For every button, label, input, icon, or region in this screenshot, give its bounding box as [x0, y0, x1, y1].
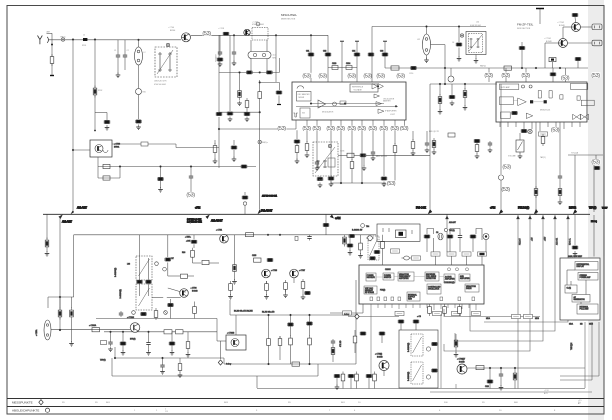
svg-text:8: 8	[554, 410, 556, 412]
svg-text:C203H: C203H	[385, 269, 391, 271]
svg-text:N/4: N/4	[302, 113, 305, 115]
svg-text:MPX2: MPX2	[569, 205, 577, 209]
svg-text:CMOS-KO 4TR: CMOS-KO 4TR	[154, 81, 167, 83]
svg-text:300: 300	[444, 402, 448, 404]
svg-text:REFERENCE: REFERENCE	[352, 86, 364, 88]
svg-text:MUTE AMP: MUTE AMP	[501, 86, 511, 89]
svg-text:+ CT05: + CT05	[271, 270, 277, 272]
svg-text:+ C2RA: + C2RA	[35, 329, 38, 336]
svg-text:ANT: ANT	[47, 30, 51, 33]
svg-text:3D: 3D	[62, 402, 65, 404]
svg-text:OSC MASTER: OSC MASTER	[298, 93, 311, 96]
svg-text:DISPLAY: DISPLAY	[577, 265, 585, 268]
svg-text:AM-ANT: AM-ANT	[449, 221, 457, 224]
svg-text:B01: B01	[106, 402, 111, 404]
svg-text:4700 500 0001: 4700 500 0001	[154, 84, 166, 86]
svg-text:+LW: +LW	[532, 237, 534, 241]
svg-text:B03: B03	[224, 402, 229, 404]
svg-text:ABGLEICHPUNKTE: ABGLEICHPUNKTE	[12, 409, 39, 413]
svg-text:MHz: MHz	[273, 58, 277, 60]
svg-text:WP(1): WP(1)	[589, 205, 596, 209]
svg-text:1 B: 1 B	[165, 411, 168, 413]
svg-text:+ CT02B: + CT02B	[227, 332, 235, 334]
svg-text:FM-ABST: FM-ABST	[215, 53, 218, 62]
svg-text:MASTER: MASTER	[383, 99, 391, 102]
svg-text:+ CT202: + CT202	[127, 317, 134, 319]
svg-text:+FM: +FM	[195, 205, 200, 209]
svg-text:+ C204A: + C204A	[89, 324, 97, 327]
svg-text:MESSPUNKTE: MESSPUNKTE	[12, 400, 33, 404]
svg-text:4 HB 320 001: 4 HB 320 001	[470, 25, 481, 27]
svg-text:DRIVE: DRIVE	[466, 288, 472, 290]
svg-text:AMPLIFIER: AMPLIFIER	[445, 278, 455, 281]
svg-text:TVC(2)A: TVC(2)A	[571, 152, 579, 155]
svg-text:AMPLIFIER: AMPLIFIER	[460, 277, 470, 280]
svg-text:RF STAGE: RF STAGE	[365, 291, 375, 294]
svg-text:OSCILLATOR: OSCILLATOR	[428, 288, 440, 291]
svg-text:3D: 3D	[95, 402, 98, 404]
svg-text:FELD2(1): FELD2(1)	[518, 205, 529, 209]
svg-text:RDS-CL: RDS-CL	[570, 238, 572, 245]
svg-text:B1-B2 GB+4T4 R:LINE: B1-B2 GB+4T4 R:LINE	[234, 311, 253, 313]
svg-text:R202: R202	[98, 90, 102, 92]
svg-text:+ CT102: + CT102	[557, 22, 564, 24]
svg-text:RAP(2): RAP(2)	[480, 64, 486, 67]
svg-text:1.5V MC 3.0 GHZ: 1.5V MC 3.0 GHZ	[187, 219, 202, 221]
svg-text:2: 2	[165, 409, 166, 411]
svg-text:B-4010S(1): B-4010S(1)	[120, 289, 122, 299]
svg-text:FM IF SECTION: FM IF SECTION	[517, 28, 531, 30]
svg-text:FM-OSZ: FM-OSZ	[416, 205, 426, 209]
svg-text:TMP(1)H: TMP(1)H	[571, 342, 573, 350]
svg-text:FM(1)a: FM(1)a	[262, 142, 268, 144]
svg-text:R1-R5 GB+4T8: R1-R5 GB+4T8	[262, 312, 274, 314]
svg-text:C4: C4	[452, 42, 454, 44]
svg-text:+ CT0(1)7: + CT0(1)7	[457, 359, 465, 361]
svg-text:R201: R201	[82, 45, 86, 47]
svg-text:+ CT03: + CT03	[114, 144, 120, 146]
svg-text:10: 10	[358, 402, 361, 404]
svg-text:3: 3	[256, 410, 258, 412]
svg-text:4: 4	[354, 410, 356, 412]
svg-text:SWITCH: SWITCH	[384, 277, 392, 279]
svg-text:AM-OSZ: AM-OSZ	[556, 237, 559, 245]
svg-text:BC848: BC848	[546, 41, 552, 43]
svg-text:FM-ABST: FM-ABST	[261, 209, 273, 213]
svg-text:C6: C6	[436, 232, 438, 234]
svg-text:MDB: MDB	[535, 318, 540, 320]
svg-text:B-4010S(1): B-4010S(1)	[408, 371, 410, 381]
svg-text:3D: 3D	[288, 402, 291, 404]
svg-text:AM-ANT: AM-ANT	[62, 220, 72, 224]
svg-text:MDA: MDA	[569, 323, 574, 326]
svg-text:WREF: WREF	[602, 207, 608, 209]
svg-text:IF AMPLIFIER: IF AMPLIFIER	[385, 110, 397, 113]
svg-text:TAP(1): TAP(1)	[449, 229, 455, 232]
svg-text:+ C252: + C252	[252, 22, 258, 24]
svg-text:+C05: +C05	[186, 241, 190, 243]
svg-text:+ CT8(1): + CT8(1)	[375, 354, 383, 356]
svg-text:AM-ABST: AM-ABST	[211, 219, 223, 223]
svg-text:AC: AC	[578, 402, 581, 405]
svg-text:L2: L2	[144, 52, 146, 54]
svg-text:AC3: AC3	[544, 392, 548, 395]
svg-text:C223: C223	[332, 63, 336, 65]
svg-text:+MW: +MW	[545, 236, 547, 241]
svg-text:BC848: BC848	[459, 362, 465, 364]
svg-text:MODULATOR: MODULATOR	[322, 111, 334, 114]
svg-text:4T1 MD: 4T1 MD	[340, 340, 342, 347]
svg-text:C258: C258	[340, 151, 344, 153]
svg-text:MED 302 F05: MED 302 F05	[376, 156, 387, 158]
svg-text:MSS-BT-001: MSS-BT-001	[540, 110, 550, 112]
svg-text:L52: L52	[417, 39, 420, 41]
svg-text:GARL MDR WRF: GARL MDR WRF	[568, 255, 583, 258]
svg-text:MDA: MDA	[486, 317, 491, 320]
svg-text:1: 1	[156, 410, 158, 412]
svg-text:VOLTAGE: VOLTAGE	[354, 89, 363, 92]
svg-text:TAP(1): TAP(1)	[540, 156, 546, 159]
svg-text:B00: B00	[514, 402, 519, 404]
svg-text:R06: R06	[182, 252, 185, 254]
svg-text:BC848: BC848	[559, 25, 565, 27]
svg-text:MISCHTEIL: MISCHTEIL	[281, 13, 297, 17]
svg-text:C216: C216	[409, 73, 413, 75]
svg-text:C07: C07	[171, 258, 174, 260]
svg-text:VOLUME: VOLUME	[508, 156, 516, 158]
svg-text:BF961: BF961	[114, 147, 119, 149]
svg-text:10.7: 10.7	[273, 55, 277, 57]
svg-text:R260: R260	[319, 180, 323, 182]
svg-text:+ C218: + C218	[218, 28, 224, 30]
svg-text:C22: C22	[323, 51, 326, 53]
svg-text:FELD2T: FELD2T	[520, 237, 522, 245]
svg-text:+ CT04: + CT04	[168, 27, 174, 29]
svg-text:C24: C24	[352, 51, 355, 53]
svg-text:MIXER: MIXER	[299, 97, 305, 99]
svg-text:C2M: C2M	[485, 386, 489, 388]
svg-text:M2: M2	[580, 324, 583, 326]
svg-text:AMPLIFIER: AMPLIFIER	[399, 277, 409, 280]
svg-text:+ C8: + C8	[417, 316, 421, 318]
svg-text:C26: C26	[380, 51, 383, 53]
svg-text:4T7 MD 3 000 001: 4T7 MD 3 000 001	[262, 196, 277, 198]
svg-text:CL(1): CL(1)	[567, 288, 572, 290]
svg-text:FM(1): FM(1)	[61, 36, 66, 38]
svg-text:R20: R20	[143, 92, 146, 94]
svg-text:C2: C2	[127, 50, 129, 52]
svg-text:PIN(2): PIN(2)	[380, 290, 386, 292]
svg-text:+FM: +FM	[490, 205, 495, 209]
svg-text:AM-ANT: AM-ANT	[77, 205, 87, 209]
svg-text:C21: C21	[306, 51, 309, 53]
svg-text:GENERATOR: GENERATOR	[574, 298, 586, 301]
svg-text:B-4010S(1): B-4010S(1)	[408, 342, 410, 352]
svg-text:+1.5V: +1.5V	[544, 390, 550, 392]
svg-text:+ CT06: + CT06	[191, 288, 197, 290]
svg-text:BF964: BF964	[170, 30, 175, 32]
svg-text:1.0V MC 100 GHZ: 1.0V MC 100 GHZ	[187, 222, 203, 224]
svg-text:7: 7	[329, 410, 331, 412]
svg-text:C1: C1	[114, 50, 116, 52]
svg-text:+ CT07: + CT07	[299, 270, 305, 272]
svg-text:+ CT101: + CT101	[544, 38, 551, 40]
svg-text:1k: 1k	[83, 35, 85, 37]
svg-text:4700 500 0001: 4700 500 0001	[252, 24, 264, 26]
svg-text:+AM: +AM	[335, 216, 340, 220]
svg-text:B-4010S 4W: B-4010S 4W	[352, 230, 362, 232]
svg-text:COM-BAL(1): COM-BAL(1)	[444, 281, 455, 284]
svg-text:LOOP: LOOP	[390, 114, 396, 116]
svg-text:MIXER SECTION: MIXER SECTION	[281, 19, 296, 21]
svg-text:L03: L03	[127, 264, 130, 266]
svg-text:Safety: Safety	[344, 313, 349, 316]
svg-text:REG: REG	[408, 299, 412, 301]
svg-text:+ 50H+: + 50H+	[185, 236, 191, 238]
svg-text:B01: B01	[341, 402, 346, 404]
svg-text:1: 1	[134, 410, 136, 412]
svg-text:TAP(1): TAP(1)	[100, 359, 106, 362]
svg-text:BED QD YR: BED QD YR	[429, 131, 440, 133]
svg-text:3D: 3D	[482, 402, 485, 404]
svg-text:BC848: BC848	[192, 291, 198, 293]
svg-text:RECEIVE: RECEIVE	[367, 277, 376, 279]
svg-text:FM-ZF-TEIL: FM-ZF-TEIL	[517, 23, 534, 27]
svg-text:L54: L54	[476, 22, 479, 24]
svg-text:T04: T04	[366, 226, 369, 228]
svg-text:POWER AMP: POWER AMP	[580, 276, 592, 279]
svg-text:C255: C255	[252, 255, 256, 257]
svg-text:6: 6	[439, 410, 441, 412]
svg-text:+ CT01: + CT01	[216, 230, 222, 232]
svg-text:DETECTOR: DETECTOR	[426, 278, 437, 280]
svg-text:BF9(2): BF9(2)	[130, 339, 136, 341]
svg-text:C234: C234	[346, 63, 350, 65]
svg-text:POLL REG: POLL REG	[580, 309, 590, 311]
svg-text:10: 10	[499, 410, 502, 412]
svg-text:B-4010S(1): B-4010S(1)	[115, 267, 117, 277]
svg-text:BC848: BC848	[377, 357, 383, 359]
